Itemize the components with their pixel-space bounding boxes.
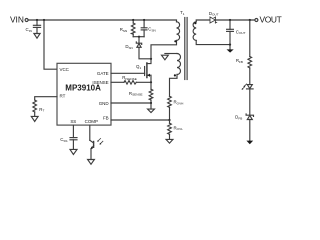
junction CSN tap on VIN rail xyxy=(143,19,145,21)
wire ISENSE pin to RISENSE xyxy=(111,81,124,83)
wire RFB to LED anode xyxy=(249,68,251,85)
junction RSN tap on VIN rail xyxy=(132,19,134,21)
junction drain node xyxy=(150,58,152,60)
svg-text:VOUT: VOUT xyxy=(260,15,282,25)
wire aux winding top return xyxy=(165,53,177,55)
light arrows out of LED xyxy=(242,84,247,90)
diode DSN xyxy=(136,42,141,44)
junction FB node xyxy=(168,119,170,121)
wire GND node to ground xyxy=(150,103,152,109)
svg-text:CSS: CSS xyxy=(60,137,67,143)
svg-text:Q1: Q1 xyxy=(136,64,141,70)
diode LED optocoupler emitter xyxy=(247,85,252,89)
svg-text:CSN: CSN xyxy=(148,27,155,33)
svg-text:DSN: DSN xyxy=(125,44,132,50)
transistor Q1 N-MOSFET xyxy=(144,67,146,76)
wire FB node to ROVL xyxy=(169,120,171,123)
wire to secondary ground xyxy=(229,45,231,50)
capacitor C_IN xyxy=(36,20,38,25)
svg-text:CIN: CIN xyxy=(26,27,32,33)
wire RISENSE to Q1 source xyxy=(136,81,151,83)
wire GATE pin to Q1 gate xyxy=(111,72,145,74)
transformer T1 secondary winding xyxy=(193,22,196,41)
phase dot primary xyxy=(174,40,176,42)
resistor ROVL xyxy=(168,123,172,134)
wire DFB anode to ground xyxy=(249,120,251,141)
junction VCC tap on VIN rail xyxy=(43,19,45,21)
wire VIN rail to RSN xyxy=(132,20,134,23)
wire SS pin to CSS xyxy=(72,125,74,138)
wire optocoupler emitter to ground xyxy=(90,149,92,160)
transistor U2 optocoupler phototransistor xyxy=(90,140,94,143)
wire VOUT rail xyxy=(215,19,255,21)
svg-text:COUT: COUT xyxy=(236,29,246,35)
wire VIN top rail to transformer primary xyxy=(28,20,176,22)
wire RSN to snubber bottom xyxy=(132,34,134,37)
svg-text:RFB: RFB xyxy=(236,58,243,64)
resistor RISENSE xyxy=(124,81,136,85)
junction CIN tap on VIN rail xyxy=(36,19,38,21)
diode DFB zener xyxy=(246,114,253,116)
svg-text:RT: RT xyxy=(39,107,44,113)
svg-text:GATE: GATE xyxy=(97,71,109,76)
resistor RSN xyxy=(131,23,135,34)
ground below CSS (open arrow) xyxy=(70,149,77,154)
transformer T1 core xyxy=(184,18,186,80)
svg-text:T1: T1 xyxy=(180,10,185,16)
wire COMP pin to optocoupler collector xyxy=(89,125,91,140)
svg-text:FB: FB xyxy=(103,115,109,120)
IC U1 MP3910A body xyxy=(57,63,111,125)
node VOUT output terminal xyxy=(255,19,258,22)
svg-text:RSN: RSN xyxy=(120,27,127,33)
svg-text:RSENSE: RSENSE xyxy=(129,91,143,97)
wire VIN rail to VCC pin xyxy=(44,20,57,69)
wire LED cathode to DFB cathode xyxy=(249,89,251,115)
ground below CIN (open arrow) xyxy=(34,34,40,39)
wire VOUT rail to COUT xyxy=(229,20,231,29)
node VIN input terminal xyxy=(25,19,28,22)
svg-text:COMP: COMP xyxy=(85,119,98,124)
junction secondary bottom and COUT xyxy=(229,44,231,46)
wire GND pin to RSENSE bottom xyxy=(111,102,151,104)
resistor RSENSE xyxy=(149,89,153,100)
junction GND node xyxy=(150,102,152,104)
svg-text:MP3910A: MP3910A xyxy=(65,83,101,92)
svg-text:VIN: VIN xyxy=(10,14,24,24)
ground arrow aux return (open) xyxy=(162,55,169,60)
junction COUT tap on VOUT rail xyxy=(229,19,231,21)
capacitor CSN xyxy=(141,27,147,29)
phase dot secondary xyxy=(194,22,196,24)
svg-text:ROVL: ROVL xyxy=(174,125,184,131)
wire aux bottom to ROVH xyxy=(170,75,178,97)
wire DSN anode to drain node xyxy=(139,47,151,59)
wire RT resistor to ground xyxy=(34,112,36,116)
light arrows into optocoupler xyxy=(97,138,103,144)
ground below RT (open arrow) xyxy=(31,116,38,121)
capacitor COUT xyxy=(227,28,234,30)
wire FB pin to OV divider xyxy=(111,119,170,121)
ground below RSENSE (open arrow) xyxy=(148,109,155,112)
junction snubber to DSN xyxy=(138,36,140,38)
transformer T1 auxiliary winding xyxy=(177,54,181,75)
resistor ROVH xyxy=(168,96,172,107)
wire VOUT rail to RFB xyxy=(249,20,251,57)
svg-text:RISENSE: RISENSE xyxy=(122,75,137,81)
junction RFB tap on VOUT rail xyxy=(249,19,251,21)
svg-text:GND: GND xyxy=(99,101,110,106)
wire source node to RSENSE xyxy=(150,82,152,89)
svg-text:ROVH: ROVH xyxy=(174,100,184,106)
svg-text:RT: RT xyxy=(60,94,66,99)
wire snubber to DSN cathode xyxy=(138,37,140,44)
wire VIN rail to CSN xyxy=(143,20,145,28)
diode DOUT schottky xyxy=(210,17,217,23)
ground secondary (filled) xyxy=(227,49,234,52)
svg-text:VCC: VCC xyxy=(60,67,70,72)
resistor RT xyxy=(33,100,37,112)
svg-text:DOUT: DOUT xyxy=(209,11,219,17)
wire drain node to primary bottom xyxy=(151,40,177,58)
wire ROVL to ground xyxy=(169,134,171,139)
wire secondary top to DOUT anode xyxy=(196,20,210,22)
junction ISENSE and Q1 source xyxy=(150,81,152,83)
svg-text:SS: SS xyxy=(70,119,76,124)
transformer T1 primary winding xyxy=(177,22,180,41)
ground below ROVL (open arrow) xyxy=(166,139,173,143)
svg-text:DFB: DFB xyxy=(235,115,242,121)
phase dot aux xyxy=(174,74,176,76)
ground below optocoupler (open arrow) xyxy=(88,160,95,165)
resistor RFB xyxy=(248,57,252,69)
wire RSENSE to GND node xyxy=(150,100,152,103)
wire RT pin to RT resistor xyxy=(35,97,57,100)
wire secondary bottom rail xyxy=(196,40,230,44)
capacitor CSS xyxy=(70,137,77,139)
ground below DFB (filled) xyxy=(246,141,253,145)
wire ROVH to FB node xyxy=(169,107,171,120)
wire snubber bottom rail xyxy=(133,36,144,38)
